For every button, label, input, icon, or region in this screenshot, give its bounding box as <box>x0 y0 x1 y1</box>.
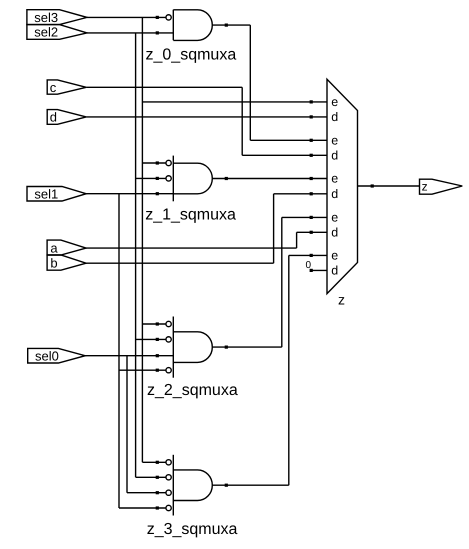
svg-text:d: d <box>50 110 57 125</box>
wire a vertical <box>296 232 298 248</box>
wire z_3 output <box>212 484 288 486</box>
input port d <box>47 110 86 125</box>
wire sel2 vertical bus <box>135 33 137 477</box>
wire b to mux d3 <box>274 193 327 195</box>
pin dot at mux input y=270.4 <box>310 269 313 272</box>
svg-text:e: e <box>331 95 338 109</box>
wire mux output to port z <box>358 185 420 187</box>
wire z_3 in2 stub <box>136 476 166 478</box>
pin dot at mux input y=178.5 <box>310 177 313 180</box>
svg-text:sel0: sel0 <box>35 348 59 363</box>
wire sel1 branch to z_2 in4 <box>119 369 166 371</box>
bubble z_2 in2 <box>166 337 171 342</box>
wire z_3 output vertical <box>288 255 290 485</box>
wire z_2 output vertical <box>281 217 283 347</box>
wire a to mux d4 <box>297 231 327 233</box>
svg-text:e: e <box>331 134 338 148</box>
AND gate z_3_sqmuxa (U4) <box>173 455 212 516</box>
pin dot at gate input y=178.4 <box>156 177 159 180</box>
svg-text:e: e <box>331 211 338 225</box>
wire d to mux d1 <box>86 116 327 118</box>
svg-text:z_2_sqmuxa: z_2_sqmuxa <box>147 382 238 399</box>
pin dot at gate output y=485.2 <box>225 484 228 487</box>
svg-text:z: z <box>422 180 428 194</box>
wire sel3 to z_0 in1 <box>87 16 166 18</box>
svg-text:d: d <box>331 226 338 240</box>
pin dot at mux input y=217.4 <box>310 216 313 219</box>
wire z_1 in1 stub <box>142 162 165 164</box>
svg-text:d: d <box>331 149 338 163</box>
AND gate z_0_sqmuxa (U1) <box>173 10 212 41</box>
pin dot at gate input y=492.7 <box>156 491 159 494</box>
pin dot at gate input y=339.4 <box>156 338 159 341</box>
pin dot at mux input y=116.9 <box>310 115 313 118</box>
wire sel3 vertical bus <box>141 17 143 462</box>
wire z_1 output to mux e3 <box>212 178 327 180</box>
svg-text:sel2: sel2 <box>34 25 58 40</box>
wire z_3 in1 stub <box>142 461 165 463</box>
wire sel0 vertical bus <box>126 356 128 493</box>
svg-text:d: d <box>331 110 338 124</box>
bubble z_1 in1 <box>166 160 171 165</box>
wire c to vertical <box>86 86 242 88</box>
svg-text:b: b <box>50 255 57 270</box>
pin dot at gate input y=17.4 <box>156 16 159 19</box>
pin dot at gate input y=324.0 <box>156 322 159 325</box>
svg-text:z_0_sqmuxa: z_0_sqmuxa <box>146 46 237 63</box>
bubble z_3 in2 <box>166 475 171 480</box>
svg-text:e: e <box>331 249 338 263</box>
wire z_1 in2 stub <box>136 177 166 179</box>
pin dot at gate input y=355.7 <box>156 354 159 357</box>
wire a to vertical <box>86 247 297 249</box>
wire z_0 output <box>212 24 250 26</box>
pin dot at mux input y=255.4 <box>310 254 313 257</box>
wire z_2 out to mux e4 <box>282 216 327 218</box>
svg-text:sel3: sel3 <box>34 10 58 25</box>
wire z_2 in1 stub <box>142 323 165 325</box>
pin dot at mux input y=101.9 <box>310 100 313 103</box>
svg-text:d: d <box>331 264 338 278</box>
wire z_3 out to mux e5 <box>289 254 327 256</box>
pin dot at mux output <box>371 184 374 187</box>
wire z_0 out to mux e2 <box>250 139 327 141</box>
bubble z_3 in4 <box>166 505 171 510</box>
wire b to vertical <box>86 262 274 264</box>
pin dot at mux input y=140.3 <box>310 139 313 142</box>
pin dot at gate output y=25.1 <box>225 24 228 27</box>
AND gate z_2_sqmuxa (U3) <box>173 317 212 378</box>
wire sel2 to z_0 in2 <box>87 32 173 34</box>
svg-text:d: d <box>331 187 338 201</box>
wire z_0 output vertical <box>249 25 251 140</box>
svg-text:c: c <box>50 80 57 95</box>
pin dot at gate input y=462.3 <box>156 461 159 464</box>
pin dot at gate input y=193.7 <box>156 192 159 195</box>
AND gate z_1_sqmuxa (U2) <box>173 156 212 202</box>
pin dot at gate input y=32.9 <box>156 31 159 34</box>
svg-text:z_1_sqmuxa: z_1_sqmuxa <box>145 207 236 224</box>
bubble z_2 in4 <box>166 368 171 373</box>
input port sel2 <box>27 25 87 40</box>
input port sel0 <box>28 348 85 363</box>
output port z <box>420 179 463 194</box>
input port sel3 <box>27 10 87 25</box>
pin dot at mux input y=232.3 <box>310 231 313 234</box>
wire sel1 vertical bus <box>118 194 120 508</box>
pin dot at gate input y=370.2 <box>156 369 159 372</box>
wire sel0 to z_2 in3 <box>85 355 173 357</box>
svg-text:z: z <box>338 292 345 308</box>
bubble z_3 in1 <box>166 460 171 465</box>
wire c vertical <box>241 87 243 155</box>
pin dot at gate output y=347.1 <box>225 346 228 349</box>
svg-text:a: a <box>50 240 58 255</box>
wire c to mux d2 <box>242 154 327 156</box>
bubble z_2 in1 <box>166 321 171 326</box>
wire sel3 branch to mux e1 <box>142 101 327 103</box>
wire b vertical <box>273 194 275 263</box>
pin dot at gate input y=477.3 <box>156 476 159 479</box>
bubble z_0 in1 <box>166 15 171 20</box>
input port a <box>47 240 86 255</box>
input port sel1 <box>27 186 86 201</box>
wire z_3 in4 stub <box>119 507 166 509</box>
wire sel1 to z_1 in3 <box>86 193 173 195</box>
svg-text:e: e <box>331 172 338 186</box>
wire z_2 in2 stub <box>136 338 166 340</box>
pin dot at gate output y=178.5 <box>225 177 228 180</box>
pin dot at mux input y=193.8 <box>310 192 313 195</box>
pin dot at mux input y=155.3 <box>310 154 313 157</box>
wire z_3 in3 stub <box>127 492 166 494</box>
input port c <box>47 80 86 95</box>
bubble z_3 in3 <box>166 490 171 495</box>
pin dot at gate input y=163.0 <box>156 161 159 164</box>
wire const 0 to mux d5 <box>311 269 328 271</box>
input port b <box>47 255 86 270</box>
bubble z_1 in2 <box>166 176 171 181</box>
mux z (pmux) <box>327 79 358 293</box>
wire z_2 output <box>212 346 281 348</box>
svg-text:sel1: sel1 <box>34 186 58 201</box>
svg-text:z_3_sqmuxa: z_3_sqmuxa <box>147 521 238 538</box>
pin dot at gate input y=508.0 <box>156 506 159 509</box>
